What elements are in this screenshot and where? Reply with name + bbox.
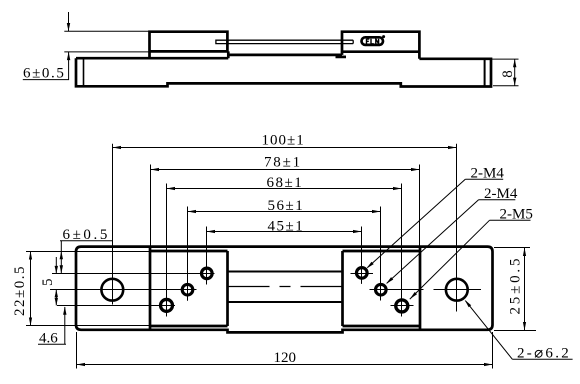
label 2-φ6.2 (466, 301, 573, 360)
svg-text:2-M4: 2-M4 (484, 186, 518, 202)
120 dim extension lines (76, 332, 78, 369)
manganin strip inner edge bottom (228, 301, 343, 303)
right terminal block side view (342, 32, 419, 59)
right holes vertical center lines (361, 227, 363, 284)
78 dim extension lines (150, 165, 152, 247)
base plate top edge left section (76, 57, 228, 60)
base plate side view outline (76, 58, 491, 86)
left block slot (216, 40, 228, 43)
svg-text:2-M4: 2-M4 (471, 165, 505, 181)
left M4 hole middle (182, 284, 193, 295)
base plate left end inner line (83, 58, 85, 86)
svg-text:4.6: 4.6 (39, 330, 58, 346)
dimension 56±1 (188, 211, 381, 213)
svg-text:8: 8 (500, 70, 516, 78)
svg-text:6±0.5: 6±0.5 (63, 227, 110, 243)
manganin strip inner edge top (228, 270, 343, 272)
left M4 hole top (202, 268, 213, 279)
svg-text:5: 5 (40, 279, 56, 287)
left holes horizontal center lines (52, 273, 215, 275)
dimension 8 (base plate thickness) (491, 59, 519, 86)
svg-text:68±1: 68±1 (267, 175, 304, 191)
dimension 6±0.5 (side view block height) (23, 12, 150, 80)
base plate right end inner line (484, 59, 486, 87)
right block slot end (352, 40, 354, 43)
svg-text:120: 120 (274, 350, 297, 366)
right middle block (343, 251, 421, 326)
left big hole vertical center line (112, 144, 114, 305)
base plate top edge step mark (336, 56, 347, 59)
dimension 100±1 (113, 147, 457, 149)
base plate step vertical (227, 51, 230, 58)
svg-text:100±1: 100±1 (262, 133, 305, 149)
label 2-M5 (410, 220, 531, 299)
right M4 hole middle (376, 284, 387, 295)
left M5 hole (161, 299, 173, 311)
svg-text:78±1: 78±1 (264, 154, 302, 170)
left big hole (101, 279, 123, 301)
manganin strip top line (227, 39, 353, 41)
dimension 6±0.5 (plan) (60, 241, 112, 274)
base plate plan outline (76, 247, 493, 333)
svg-text:6±0.5: 6±0.5 (23, 66, 65, 82)
right holes horizontal center lines (351, 273, 374, 275)
label 2-M4 middle (387, 200, 516, 283)
25 dim extension lines (494, 247, 530, 249)
dimension 45±1 (207, 231, 362, 233)
svg-text:22±0.5: 22±0.5 (12, 265, 28, 316)
center axis dashed (227, 286, 344, 288)
manganin strip bottom line (227, 43, 353, 45)
base plate top edge middle section (228, 54, 342, 57)
svg-text:45±1: 45±1 (268, 218, 305, 234)
label 2-M4 top (368, 179, 504, 267)
22 dim extension lines (26, 251, 150, 253)
left small holes vertical center lines (166, 184, 168, 317)
right big hole (446, 279, 468, 301)
svg-text:56±1: 56±1 (268, 198, 305, 214)
logo stamp on right block (362, 35, 386, 45)
dimension 78±1 (151, 169, 420, 171)
right end block left edge (419, 247, 422, 330)
dimension 4.6 (38, 292, 66, 344)
dimension 120 (77, 364, 493, 366)
dimension 25±0.5 (524, 248, 526, 331)
left terminal block side view (150, 32, 228, 59)
svg-text:2-M5: 2-M5 (500, 206, 533, 222)
svg-text:25±0.5: 25±0.5 (508, 256, 524, 315)
hole center lines (26, 144, 536, 369)
left end block right edge (149, 247, 152, 330)
left middle block (150, 251, 228, 326)
right M4 hole top (357, 268, 368, 279)
dimension 68±1 (167, 188, 402, 190)
dimension 22±0.5 (30, 251, 32, 326)
svg-text:2-⌀6.2: 2-⌀6.2 (517, 345, 571, 361)
dimension 5 (55, 257, 57, 300)
right M5 hole (396, 300, 408, 312)
